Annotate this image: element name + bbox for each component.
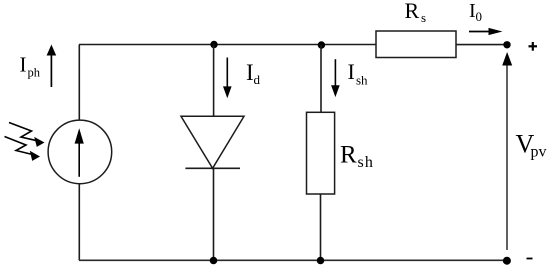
light arrow lower (zigzag) xyxy=(5,137,41,161)
voltage arrow V_pv (up, right branch) xyxy=(502,52,512,250)
svg-text:d: d xyxy=(254,72,261,87)
svg-text:sh: sh xyxy=(356,73,368,88)
current arrow I_0 (right) xyxy=(469,28,503,35)
current arrow I_sh (down) xyxy=(331,59,340,97)
node junction dot (diode branch, bottom) xyxy=(210,257,218,265)
node junction dot (shunt branch, top) xyxy=(318,41,325,48)
svg-text:I: I xyxy=(348,59,355,84)
node junction dot (shunt branch, bottom) xyxy=(317,257,325,265)
node junction dot (diode branch, top) xyxy=(210,41,217,48)
current source I_ph (circle with up arrow) xyxy=(48,120,112,184)
node terminal dot (+, top right) xyxy=(503,41,510,48)
svg-text:pv: pv xyxy=(531,144,547,161)
current arrow I_ph (up) xyxy=(47,45,57,88)
svg-text:s: s xyxy=(421,10,426,25)
label R_sh xyxy=(340,142,374,172)
resistor R_sh (box) xyxy=(307,112,335,194)
svg-text:0: 0 xyxy=(476,9,483,24)
svg-text:R: R xyxy=(405,0,420,23)
wire R_s output xyxy=(456,44,504,46)
node terminal dot (-, bottom right) xyxy=(503,257,511,265)
label I_ph xyxy=(20,53,41,80)
svg-text:I: I xyxy=(20,53,27,77)
label I_sh xyxy=(348,59,369,88)
light arrow upper (zigzag) xyxy=(9,123,45,147)
label V_pv xyxy=(516,130,547,161)
label I_d xyxy=(246,60,261,87)
diode D (triangle + cathode bar) xyxy=(181,116,244,168)
resistor R_s (box) xyxy=(376,31,456,58)
wire diode branch upper xyxy=(213,45,215,117)
wire shunt branch lower xyxy=(320,194,322,260)
wire top rail xyxy=(79,44,376,46)
svg-text:ph: ph xyxy=(28,66,41,80)
wire bottom rail xyxy=(79,259,507,261)
wire diode branch lower xyxy=(213,168,215,260)
label I_0 xyxy=(469,0,482,24)
minus sign xyxy=(527,258,533,260)
svg-text:sh: sh xyxy=(358,154,375,171)
plus sign xyxy=(529,42,538,51)
wire left vertical (source branch) xyxy=(78,45,80,261)
wire shunt branch upper xyxy=(320,45,322,112)
svg-text:R: R xyxy=(340,142,357,169)
label R_s xyxy=(405,0,427,25)
current arrow I_d (down) xyxy=(223,58,232,99)
